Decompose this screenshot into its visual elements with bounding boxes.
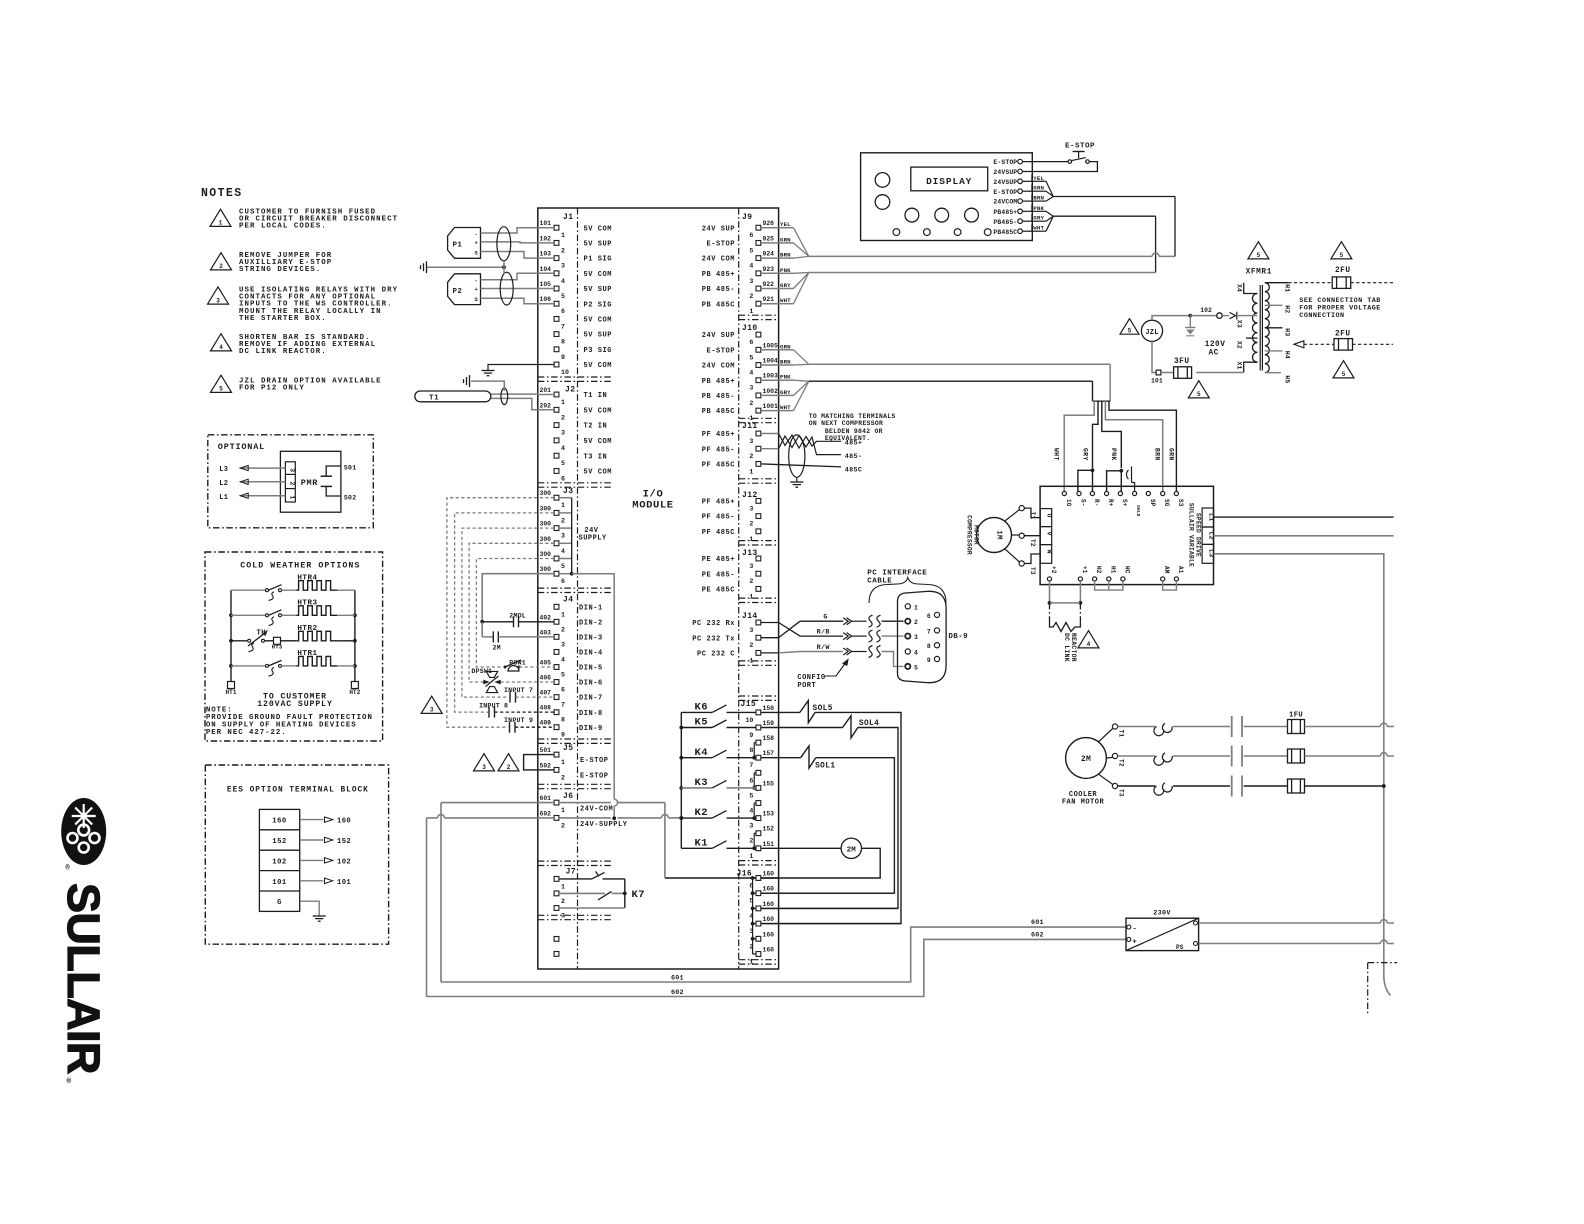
svg-text:J1: J1 — [563, 213, 573, 222]
J9 cable fan to bundle — [794, 228, 809, 257]
svg-text:403: 403 — [540, 629, 552, 636]
terminal HT2 — [351, 682, 358, 689]
J4 pin 3 — [554, 635, 559, 640]
svg-text:10: 10 — [745, 717, 753, 724]
svg-text:INPUT 8: INPUT 8 — [479, 702, 508, 709]
svg-text:1: 1 — [288, 495, 295, 499]
svg-text:SOL1: SOL1 — [815, 763, 835, 771]
svg-text:J2: J2 — [565, 386, 575, 395]
svg-text:1: 1 — [749, 308, 753, 315]
svg-text:+: + — [475, 240, 479, 247]
svg-text:160: 160 — [763, 916, 775, 923]
J10 pin 1 — [756, 408, 761, 413]
svg-text:PF 485+: PF 485+ — [702, 431, 735, 439]
svg-text:H3: H3 — [1284, 328, 1291, 336]
drive wire GRY — [1093, 401, 1099, 468]
svg-text:3: 3 — [561, 533, 565, 540]
svg-text:COMPRESSOR: COMPRESSOR — [966, 515, 973, 555]
relay PMR box — [280, 451, 341, 512]
svg-text:+: + — [475, 286, 479, 293]
svg-text:GRY: GRY — [780, 389, 791, 396]
drive terminal V — [1040, 527, 1052, 545]
svg-text:DIN-4: DIN-4 — [579, 650, 603, 658]
J14 pin 1 — [756, 651, 761, 656]
svg-text:R-: R- — [1093, 499, 1100, 507]
wire E-STOP to 24VSUP — [1022, 162, 1097, 172]
svg-text:202: 202 — [540, 402, 552, 409]
svg-text:24V COM: 24V COM — [702, 256, 735, 264]
svg-text:PNK: PNK — [780, 374, 791, 381]
PC232 Rx crossover wire — [800, 635, 843, 637]
svg-text:E-STOP: E-STOP — [580, 772, 609, 780]
svg-text:PMR: PMR — [301, 478, 318, 488]
svg-text:INPUT 9: INPUT 9 — [504, 717, 533, 724]
P2 cable shield oval — [500, 272, 513, 305]
svg-text:926: 926 — [763, 220, 775, 227]
drive terminal L1 — [1202, 508, 1214, 527]
display button — [965, 208, 979, 222]
svg-text:485C: 485C — [845, 467, 863, 475]
svg-text:6: 6 — [749, 232, 753, 239]
J10 pin 5 — [756, 347, 761, 352]
svg-text:GRY: GRY — [780, 282, 791, 289]
svg-text:405: 405 — [540, 660, 552, 667]
right column section separators — [739, 314, 779, 316]
wire L3 to PMR-3 — [240, 467, 285, 469]
J10 pin 2 — [756, 393, 761, 398]
wire JZL to 102 — [1152, 316, 1188, 321]
svg-text:4: 4 — [749, 370, 753, 377]
svg-text:5: 5 — [219, 386, 223, 393]
wire 402 — [519, 621, 555, 623]
svg-text:160: 160 — [272, 818, 286, 826]
svg-text:T2: T2 — [1029, 539, 1036, 547]
J14 pin 2 — [756, 635, 761, 640]
wire 151 to coil 2M — [761, 847, 841, 849]
svg-text:FOR P12 ONLY: FOR P12 ONLY — [239, 385, 305, 393]
svg-text:5: 5 — [561, 672, 565, 679]
T1 cable shield oval — [501, 388, 508, 404]
svg-text:9: 9 — [561, 354, 565, 361]
svg-text:A1: A1 — [1177, 566, 1184, 574]
svg-text:GRN: GRN — [780, 236, 791, 243]
svg-text:5: 5 — [749, 354, 753, 361]
K7 common bar — [624, 879, 626, 908]
svg-text:408: 408 — [540, 705, 552, 712]
fan motor lead T2 — [1106, 756, 1112, 759]
J14 pin 3 — [756, 620, 761, 625]
motor lead T1 — [1005, 510, 1020, 521]
svg-text:2FU: 2FU — [1335, 267, 1351, 275]
XFMR1 tap H5 — [1265, 372, 1281, 374]
svg-text:J3: J3 — [563, 487, 573, 496]
svg-text:300: 300 — [540, 505, 552, 512]
svg-text:L3: L3 — [219, 466, 228, 474]
svg-text:SPEED DRIVE: SPEED DRIVE — [1194, 513, 1201, 557]
svg-text:FAN MOTOR: FAN MOTOR — [1062, 798, 1105, 806]
J1 pin10 ground wire — [488, 365, 554, 371]
svg-text:PC 232 Tx: PC 232 Tx — [692, 635, 735, 643]
J1 pin 8 — [554, 332, 559, 337]
wire 601 24V-COM from J6 — [538, 802, 554, 804]
svg-text:H5: H5 — [1284, 375, 1291, 383]
wire 601 to J16 common — [559, 802, 611, 804]
J9 pin 1 — [756, 301, 761, 306]
svg-text:X1: X1 — [1236, 362, 1243, 370]
svg-text:PB485-: PB485- — [993, 219, 1017, 226]
svg-text:101: 101 — [1151, 378, 1163, 385]
drive terminal W — [1040, 545, 1052, 564]
relay contact K7 lower — [559, 892, 605, 894]
svg-text:PB 485+: PB 485+ — [702, 271, 735, 279]
svg-text:3: 3 — [749, 278, 753, 285]
svg-text:MOTOR: MOTOR — [973, 525, 980, 545]
wire L3 feed — [1214, 554, 1384, 975]
svg-text:3: 3 — [430, 707, 434, 714]
svg-text:SULLAIR: SULLAIR — [58, 883, 109, 1074]
svg-text:L2: L2 — [1207, 532, 1215, 540]
XFMR1 terminal X2 — [1246, 337, 1257, 339]
svg-text:7: 7 — [561, 702, 565, 709]
svg-text:7: 7 — [749, 762, 753, 769]
XFMR1 tap H2 — [1265, 304, 1283, 306]
svg-text:J11: J11 — [742, 422, 758, 431]
EES terminal block — [259, 809, 299, 911]
svg-text:6: 6 — [927, 613, 931, 620]
plug connector at X3 — [1230, 312, 1236, 318]
J2 pin 6 — [554, 469, 559, 474]
J9 pin 3 — [756, 271, 761, 276]
XFMR1 secondary winding — [1265, 283, 1270, 373]
svg-text:DIN-9: DIN-9 — [579, 725, 603, 733]
svg-text:602: 602 — [1031, 931, 1044, 939]
ground at J1 pin 10 — [482, 370, 495, 372]
note triangle 5 above XFMR1 — [1248, 242, 1269, 259]
svg-text:P2: P2 — [453, 288, 463, 296]
motor lead T2 — [1012, 534, 1020, 536]
J15 pin 4 — [756, 801, 761, 806]
svg-text:BRN: BRN — [780, 359, 791, 366]
note triangle 3 — [208, 287, 229, 304]
wire 300 feed 2MOL 2M — [482, 574, 554, 622]
right rail HT2 — [354, 590, 356, 684]
svg-text:300: 300 — [540, 521, 552, 528]
solenoid SOL1 — [801, 746, 816, 768]
wire 201 T1 to J2-1 — [491, 393, 538, 395]
J13 pin 3 — [756, 556, 761, 561]
wire 103 P1 shield to J1-3 — [481, 252, 538, 259]
svg-text:485-: 485- — [845, 453, 863, 461]
DB9 pin 4 — [905, 649, 910, 654]
svg-text:PNK: PNK — [1110, 448, 1117, 461]
fan motor lead T1 — [1099, 729, 1113, 742]
svg-text:S: S — [475, 296, 479, 303]
power supply PS box — [1126, 918, 1199, 950]
note triangle 2 at J5 — [498, 754, 519, 771]
J11 pin 1 — [756, 462, 761, 467]
svg-text:157: 157 — [763, 750, 775, 757]
svg-text:502: 502 — [540, 762, 552, 769]
svg-text:STRING DEVICES.: STRING DEVICES. — [239, 266, 321, 274]
T1 shield drain — [471, 381, 504, 391]
svg-text:J16: J16 — [737, 870, 753, 879]
svg-text:5V COM: 5V COM — [584, 317, 613, 325]
svg-text:3: 3 — [216, 297, 220, 304]
svg-text:PE 485+: PE 485+ — [702, 556, 735, 564]
svg-text:104: 104 — [540, 266, 552, 273]
svg-text:DB-9: DB-9 — [948, 633, 968, 641]
svg-text:5V SUP: 5V SUP — [584, 241, 613, 249]
J4 pin 4 — [554, 650, 559, 655]
J15 pin 8 — [756, 740, 761, 745]
svg-text:P1 SIG: P1 SIG — [584, 256, 613, 264]
svg-text:152: 152 — [763, 826, 775, 833]
jumper AM-A1 — [1163, 581, 1177, 590]
svg-text:P1: P1 — [453, 242, 463, 250]
J15 pin 2 — [756, 831, 761, 836]
svg-text:J6: J6 — [563, 792, 573, 801]
svg-text:H2: H2 — [1284, 305, 1291, 313]
motor lead T3 — [1005, 549, 1020, 562]
svg-text:3: 3 — [561, 641, 565, 648]
J5 pin 1 — [554, 752, 559, 757]
svg-text:®: ® — [66, 864, 71, 873]
svg-text:BRN: BRN — [780, 252, 791, 259]
note triangle 5 lower right — [1333, 361, 1354, 378]
svg-text:3: 3 — [749, 505, 753, 512]
svg-text:H1: H1 — [1109, 566, 1116, 574]
wire 202 T1 to J2-2 — [491, 398, 538, 409]
svg-text:H4: H4 — [1284, 351, 1291, 359]
display terminal pins — [1018, 159, 1023, 164]
svg-text:4: 4 — [1087, 641, 1091, 648]
J2 pin 1 — [554, 392, 559, 397]
svg-text:3: 3 — [561, 430, 565, 437]
drive terminal L2 — [1202, 527, 1214, 544]
svg-text:EES OPTION TERMINAL BLOCK: EES OPTION TERMINAL BLOCK — [227, 786, 369, 794]
temperature probe T1 — [415, 391, 491, 402]
display led — [924, 229, 931, 236]
svg-text:HT2: HT2 — [349, 689, 360, 696]
wire to DB9 pin5 — [882, 652, 904, 667]
svg-text:7: 7 — [927, 628, 931, 635]
svg-text:921: 921 — [763, 296, 775, 303]
svg-text:J14: J14 — [742, 612, 758, 621]
J16 pin6 wire stub — [761, 877, 779, 879]
svg-text:5V COM: 5V COM — [584, 225, 613, 233]
J16 pin 5 — [756, 891, 761, 896]
svg-text:S+: S+ — [1121, 499, 1128, 507]
J1 pin1-6 lead stubs — [538, 227, 554, 229]
svg-text:X4: X4 — [1236, 284, 1243, 292]
svg-text:5: 5 — [1257, 252, 1261, 259]
J10 wire color labels — [761, 349, 779, 351]
svg-text:1: 1 — [561, 232, 565, 239]
J15 pin 9 — [756, 725, 761, 730]
svg-text:1: 1 — [914, 604, 918, 611]
terminal HT1 — [228, 682, 235, 689]
J3 pin 6 — [554, 571, 559, 576]
svg-text:9: 9 — [749, 732, 753, 739]
J9 wire color labels — [761, 227, 779, 229]
svg-text:4: 4 — [561, 278, 565, 285]
J12 pin 2 — [756, 514, 761, 519]
svg-text:103: 103 — [540, 251, 552, 258]
wire SOL5 return — [761, 712, 901, 923]
svg-text:102: 102 — [1200, 307, 1212, 314]
svg-text:J5: J5 — [563, 744, 573, 753]
svg-text:300: 300 — [540, 490, 552, 497]
svg-text:300: 300 — [540, 551, 552, 558]
svg-text:5: 5 — [561, 293, 565, 300]
svg-text:1001: 1001 — [763, 403, 779, 410]
svg-text:160: 160 — [763, 947, 775, 954]
sheet continuation corner — [1368, 962, 1397, 964]
svg-text:AM: AM — [1163, 566, 1170, 574]
svg-text:PB 485-: PB 485- — [702, 286, 735, 294]
svg-text:406: 406 — [540, 675, 552, 682]
svg-text:152: 152 — [272, 838, 286, 846]
svg-text:J7: J7 — [566, 868, 576, 877]
svg-text:2: 2 — [749, 838, 753, 845]
svg-text:5V COM: 5V COM — [584, 362, 613, 370]
svg-text:2: 2 — [749, 521, 753, 528]
wire 157 to SOL1 — [761, 757, 801, 759]
wire 104 P2- to J1-4 — [481, 273, 538, 280]
DB9 pin 8 — [934, 643, 939, 648]
svg-text:3: 3 — [288, 468, 295, 472]
J15 pin 3 — [756, 816, 761, 821]
EES wire 101 — [300, 880, 324, 882]
note triangle 2 — [211, 253, 232, 270]
svg-text:HC: HC — [1123, 566, 1130, 574]
J4 pin 5 — [554, 665, 559, 670]
J6 pin 2 — [554, 816, 559, 821]
J4 pin 7 — [554, 695, 559, 700]
wire L2 feed — [1214, 535, 1394, 537]
svg-text:3: 3 — [482, 764, 486, 771]
J5 pin 2 — [554, 768, 559, 773]
svg-text:924: 924 — [763, 251, 775, 258]
svg-text:T3: T3 — [1029, 567, 1036, 575]
svg-text:J9: J9 — [742, 213, 752, 222]
svg-text:JZL: JZL — [1145, 329, 1158, 337]
svg-text:1G: 1G — [1065, 499, 1072, 507]
svg-text:922: 922 — [763, 281, 775, 288]
J1 pin 7 — [554, 317, 559, 322]
svg-text:201: 201 — [540, 387, 552, 394]
J3 pin 5 — [554, 556, 559, 561]
J16 pin 6 — [756, 876, 761, 881]
EES wire 102 — [300, 859, 324, 861]
svg-text:6: 6 — [561, 578, 565, 585]
P1 P2 shield drain wire — [427, 266, 505, 268]
display bundle upper wire — [1053, 196, 1175, 198]
wire 300 loop din-6 DPSW1 — [469, 543, 554, 682]
svg-text:153: 153 — [763, 811, 775, 818]
svg-text:E-STOP: E-STOP — [706, 347, 735, 355]
J11 pin 3 — [756, 431, 761, 436]
svg-text:H1: H1 — [1284, 284, 1291, 292]
svg-text:PORT: PORT — [797, 682, 816, 690]
wire 2M coil return — [665, 848, 880, 878]
svg-text:102: 102 — [337, 858, 351, 866]
svg-text:1: 1 — [561, 399, 565, 406]
svg-text:2: 2 — [749, 400, 753, 407]
svg-text:DIN-5: DIN-5 — [579, 665, 603, 673]
svg-text:152: 152 — [337, 838, 351, 846]
svg-text:3FU: 3FU — [1174, 358, 1190, 366]
PC232 C wire — [761, 652, 779, 654]
solenoid SOL5 — [800, 701, 815, 723]
svg-text:1M: 1M — [995, 530, 1003, 540]
svg-text:MODULE: MODULE — [632, 500, 673, 512]
svg-text:E-STOP: E-STOP — [993, 159, 1017, 166]
J7 pin 1 — [554, 877, 559, 882]
display cable color labels — [1022, 180, 1031, 182]
svg-text:X3: X3 — [1236, 320, 1243, 328]
svg-text:24VSUP: 24VSUP — [993, 169, 1017, 176]
svg-text:INPUT 7: INPUT 7 — [504, 687, 533, 694]
ground at 102 wire — [1189, 316, 1191, 328]
drive bottom terminals — [1047, 577, 1051, 581]
XFMR1 primary winding — [1252, 294, 1257, 363]
svg-text:24VSUP: 24VSUP — [993, 179, 1017, 186]
svg-text:WHT: WHT — [780, 404, 791, 411]
svg-text:1: 1 — [561, 502, 565, 509]
wire to DB9 pin3 — [882, 635, 904, 637]
svg-text:106: 106 — [540, 296, 552, 303]
svg-text:501: 501 — [344, 465, 356, 472]
drive wire PNK — [1102, 401, 1122, 468]
svg-text:PB 485C: PB 485C — [702, 408, 735, 416]
display screen — [911, 167, 988, 191]
wire 300 loop din-9 — [447, 498, 554, 728]
J1 pin 2 — [554, 241, 559, 246]
svg-text:E-STOP: E-STOP — [706, 241, 735, 249]
svg-text:101: 101 — [540, 220, 552, 227]
drain valve JZL — [1141, 320, 1162, 341]
J9 pin 4 — [756, 256, 761, 261]
J11 twisted pair to next compressor — [761, 433, 779, 435]
DB9 pin 5 — [905, 664, 910, 669]
J9 pin 2 — [756, 286, 761, 291]
svg-text:L1: L1 — [1207, 513, 1215, 521]
svg-text:6: 6 — [749, 777, 753, 784]
drive top terminals — [1062, 491, 1066, 495]
wire 102 P1+ to J1-2 — [481, 242, 538, 243]
sensor connector P1 — [448, 228, 481, 259]
svg-text:E-STOP: E-STOP — [580, 757, 609, 765]
svg-text:2: 2 — [561, 822, 565, 829]
Sullair logo emblem — [61, 798, 106, 865]
svg-text:PS: PS — [1176, 944, 1184, 951]
svg-text:1: 1 — [749, 593, 753, 600]
PS output wires — [1194, 921, 1198, 925]
J16 internal chain — [752, 878, 754, 954]
J10 bundle lower wire — [809, 380, 1093, 382]
svg-text:160: 160 — [763, 931, 775, 938]
svg-text:G: G — [823, 614, 827, 622]
J10 bundle upper wire — [809, 363, 1110, 365]
J9 bundle upper wire — [809, 255, 1152, 257]
svg-text:4: 4 — [749, 808, 753, 815]
svg-text:PER NEC 427-22.: PER NEC 427-22. — [206, 729, 287, 737]
relay common bus — [680, 712, 682, 848]
wire 602 24V-SUPPLY from J6 — [444, 817, 554, 819]
display bundle lower wire — [1053, 215, 1155, 217]
drive shield drain — [1126, 470, 1128, 479]
